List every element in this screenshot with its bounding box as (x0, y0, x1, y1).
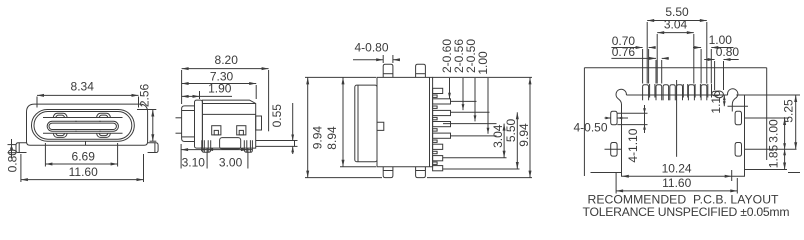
dimension 8.20 (181, 70, 183, 104)
left reference stub (591, 172, 622, 174)
svg-text:0.76: 0.76 (612, 45, 636, 59)
dimension 8.34 (top) (36, 97, 38, 108)
layout box outline (626, 94, 727, 96)
svg-text:2.56: 2.56 (137, 83, 151, 107)
dimension 7.30 (255, 85, 257, 99)
svg-text:4-0.80: 4-0.80 (354, 40, 388, 54)
solder feet (202, 140, 211, 152)
svg-text:8.20: 8.20 (215, 53, 239, 67)
svg-text:9.94: 9.94 (311, 126, 325, 150)
tongue slot opening (47, 121, 118, 131)
right keyhole notch (727, 89, 737, 112)
dimension 1.85 / 3.00 / 5.25 (right, rotated) (745, 117, 790, 119)
svg-text:11.60: 11.60 (662, 176, 691, 190)
bottom center tick (85, 141, 87, 145)
dimension 3.04 (rotated) (443, 157, 507, 159)
rear terminal block (256, 116, 262, 130)
front flange plate (195, 100, 203, 148)
top solder pads (643, 85, 649, 96)
shell cavity lines (43, 117, 123, 119)
pin dimension leaders 2-0.60 / 2-0.56 / 2-0.50 / 1.00 (451, 100, 477, 102)
right reference stub (788, 172, 800, 174)
svg-text:3.10: 3.10 (182, 155, 206, 169)
dimension 0.55 (rotated) (292, 103, 294, 141)
svg-text:3.04: 3.04 (491, 124, 505, 148)
dimension 2.56 (right, rotated) (137, 109, 156, 111)
dimension 11.60 (615, 172, 617, 194)
dimension 1.90 (182, 95, 232, 97)
main body (377, 77, 433, 166)
body seam line (202, 113, 255, 115)
dimensions 3.10 / 3.00 (180, 144, 182, 169)
svg-text:TOLERANCE UNSPECIFIED ±0.05mm: TOLERANCE UNSPECIFIED ±0.05mm (583, 205, 790, 219)
shell latch dimples (53, 113, 67, 117)
svg-text:4-1.10: 4-1.10 (626, 128, 640, 162)
dimension 0.76 (655, 60, 657, 84)
dimension 0.80 (left, rotated) (8, 144, 17, 146)
dimension 10.24 (622, 175, 629, 178)
oval centreline (605, 117, 611, 119)
svg-text:1.00: 1.00 (476, 51, 490, 75)
projection frame (584, 67, 766, 69)
svg-text:1.10: 1.10 (709, 90, 723, 114)
svg-text:1.85: 1.85 (766, 144, 780, 168)
svg-text:0.80: 0.80 (6, 149, 20, 173)
slot key tick (75, 121, 77, 122)
bottom tabs (383, 167, 393, 178)
dimension 4-1.10 (rotated) (617, 112, 647, 114)
SMT lead (side) (256, 140, 295, 142)
svg-text:11.60: 11.60 (69, 165, 98, 179)
pins (433, 88, 443, 93)
bottom tray (220, 138, 241, 149)
svg-text:9.94: 9.94 (517, 123, 531, 147)
dimension 11.60 (bottom) (20, 154, 22, 182)
svg-text:3.04: 3.04 (664, 18, 688, 32)
dimension 0.70 (642, 49, 644, 84)
svg-text:3.00: 3.00 (219, 155, 243, 169)
left mounting leg (16, 143, 27, 153)
svg-text:0.80: 0.80 (716, 45, 740, 59)
tongue stub (176, 117, 182, 119)
dimension 3.04 (656, 34, 658, 84)
metal shell stadium outline (32, 110, 135, 142)
dimension 8.94 (left, rotated) (340, 166, 376, 168)
centre line (676, 80, 678, 157)
svg-text:5.25: 5.25 (781, 99, 795, 123)
top tabs (383, 64, 393, 77)
svg-text:6.69: 6.69 (72, 150, 96, 164)
through leg lines (649, 84, 651, 98)
dimension 1.10 (notch, rotated) (728, 105, 749, 107)
dimension 5.50 (646, 22, 648, 84)
dimension 9.94 (right, rotated) (433, 76, 532, 78)
oval centreline (605, 148, 622, 150)
svg-text:4-0.50: 4-0.50 (573, 120, 607, 134)
dimension 6.69 (bottom) (44, 143, 46, 167)
svg-text:0.55: 0.55 (270, 104, 284, 128)
tongue stub (176, 132, 182, 134)
main body (202, 100, 255, 148)
dimension 0.80 (714, 61, 716, 90)
shell lip (front) (182, 106, 195, 142)
svg-text:8.34: 8.34 (71, 79, 95, 93)
side oval pads (611, 111, 617, 125)
svg-text:8.94: 8.94 (325, 126, 339, 150)
dimension 5.50 (rotated) (443, 168, 520, 170)
left keyhole notch (616, 89, 626, 104)
small circle pad (715, 91, 724, 98)
latch windows (212, 126, 221, 135)
outer housing (27, 104, 148, 145)
dimension 9.94 (left, rotated) (305, 76, 376, 78)
svg-text:10.24: 10.24 (662, 161, 692, 175)
body right inner edge (429, 77, 431, 166)
svg-text:1.90: 1.90 (208, 82, 232, 96)
right mounting leg (148, 143, 159, 153)
svg-text:3.00: 3.00 (766, 119, 780, 143)
front flange (355, 85, 377, 162)
dimension 1.00 (700, 49, 702, 84)
